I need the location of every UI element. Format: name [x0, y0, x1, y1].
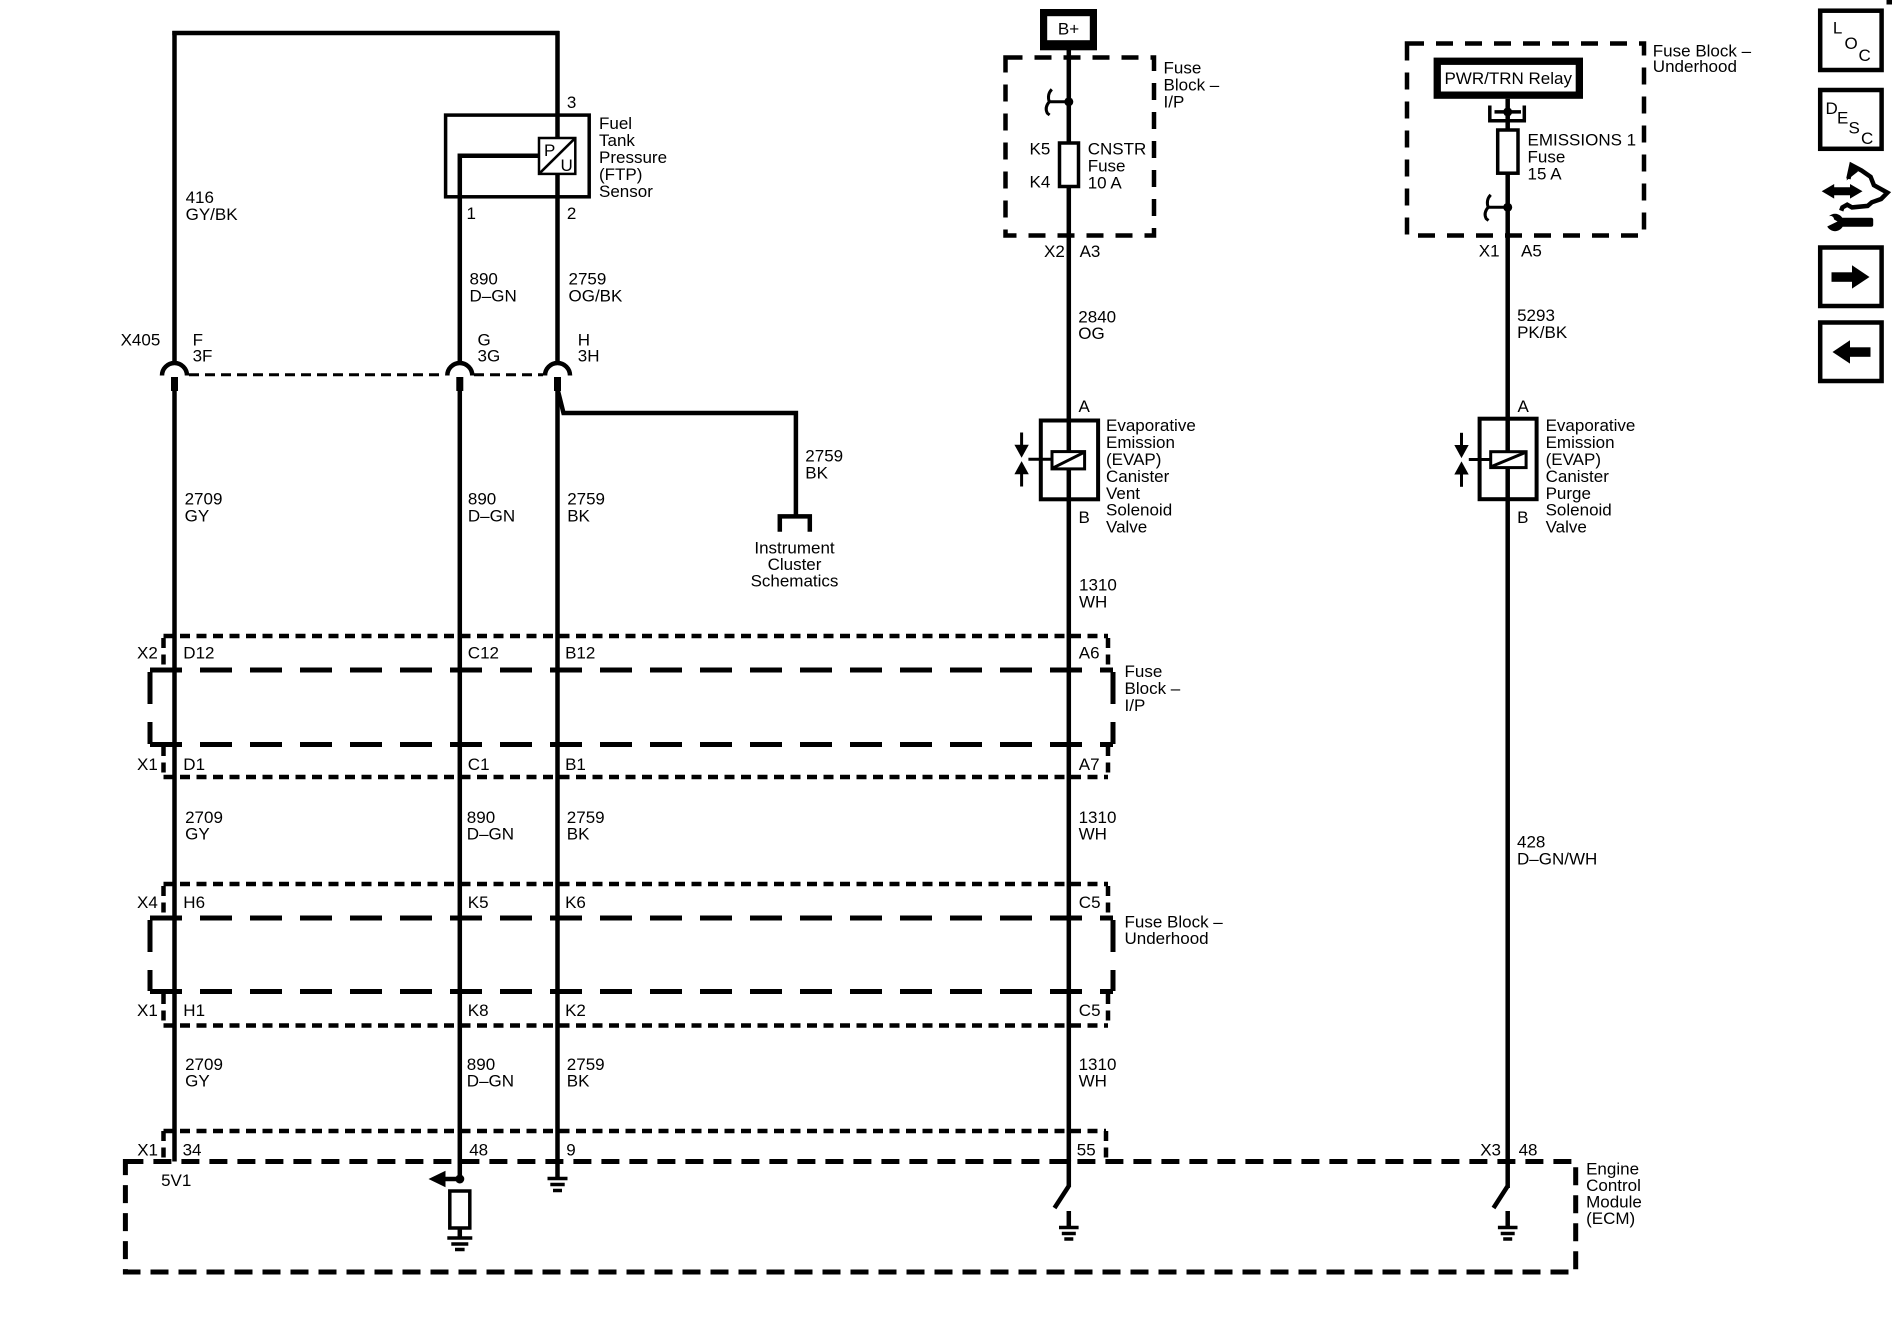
wire 2759 BK mid: [555, 390, 560, 1162]
ground (pin 48 X3): [1498, 1228, 1518, 1240]
svg-text:K5: K5: [468, 893, 489, 912]
svg-text:X4: X4: [137, 893, 158, 912]
resistor (FTP signal pull-up): [450, 1191, 470, 1228]
FTP sensor box: [446, 115, 590, 197]
svg-text:U: U: [561, 156, 573, 175]
svg-text:C5: C5: [1079, 1001, 1101, 1020]
off-page connector bracket: [780, 516, 810, 531]
svg-text:5V1: 5V1: [161, 1171, 191, 1190]
ground stub pin 55: [1067, 1211, 1072, 1226]
svg-text:C: C: [1861, 129, 1873, 148]
svg-text:9: 9: [566, 1141, 575, 1160]
svg-text:H1: H1: [183, 1001, 205, 1020]
wire 5293 PK/BK from relay: [1505, 99, 1510, 419]
svg-text:P: P: [544, 141, 555, 160]
connector arc G: [447, 363, 472, 376]
LOC icon: [1820, 11, 1881, 70]
wrench double-arrow icon: [1821, 164, 1887, 231]
svg-text:D1: D1: [183, 755, 205, 774]
svg-text:X3: X3: [1480, 1141, 1501, 1160]
fuse block underhood pass-through connector X4/X1 fine box: [164, 882, 1109, 887]
ground (pin 9): [548, 1179, 568, 1191]
wire resistor to ground: [458, 1228, 463, 1237]
stub H: [554, 377, 561, 391]
ground (below resistor): [447, 1238, 472, 1250]
ECM dashed box: [125, 1162, 1575, 1273]
P/U sensor symbol: [539, 138, 575, 175]
ground (pin 55): [1059, 1228, 1079, 1240]
driver switch pin 48 X3: [1494, 1186, 1508, 1208]
svg-text:S: S: [1849, 119, 1860, 138]
FTP internal wire pin1: [460, 156, 539, 197]
svg-text:L: L: [1833, 19, 1842, 38]
svg-text:B+: B+: [1058, 20, 1079, 39]
stub G: [456, 377, 463, 391]
fuse CNSTR 10A: [1060, 143, 1079, 187]
B+ power symbol: [1040, 9, 1097, 50]
svg-text:Fuse Block –Underhood: Fuse Block –Underhood: [1125, 913, 1224, 949]
svg-text:A: A: [1518, 397, 1530, 416]
wire pin 9 stub: [555, 1160, 560, 1177]
svg-text:B12: B12: [565, 644, 595, 663]
wire 2709 GY mid: [172, 390, 177, 1162]
fuse block underhood pass-through heavy box: [150, 916, 1113, 921]
bus tap hook K5: [1046, 89, 1073, 115]
svg-text:C12: C12: [468, 644, 499, 663]
5V reference arrow at pin 48: [429, 1171, 465, 1187]
fuse block underhood dashed box: [1407, 44, 1644, 236]
svg-text:2: 2: [567, 204, 576, 223]
svg-text:K6: K6: [565, 893, 586, 912]
svg-text:B1: B1: [565, 755, 586, 774]
bus tap hook A5: [1485, 195, 1512, 221]
svg-text:A7: A7: [1079, 755, 1100, 774]
fuse block I/P pass-through connector X2/X1 fine box: [164, 634, 1109, 639]
svg-text:EngineControlModule(ECM): EngineControlModule(ECM): [1586, 1160, 1642, 1229]
wire 1310 WH from vent valve: [1067, 499, 1072, 1162]
svg-text:48: 48: [469, 1141, 488, 1160]
DESC icon: [1820, 90, 1881, 149]
svg-text:A: A: [1079, 397, 1091, 416]
driver switch pin 55: [1055, 1186, 1069, 1208]
fuse block I/P dashed box: [1006, 58, 1155, 236]
svg-text:X2: X2: [1044, 242, 1065, 261]
svg-text:C1: C1: [468, 755, 490, 774]
EVAP canister vent solenoid valve: [1014, 421, 1098, 500]
svg-text:A3: A3: [1080, 242, 1101, 261]
svg-text:C5: C5: [1079, 893, 1101, 912]
svg-text:3: 3: [567, 93, 576, 112]
ECM connector fine line: [164, 1129, 1107, 1134]
svg-text:1: 1: [467, 204, 476, 223]
svg-text:K8: K8: [468, 1001, 489, 1020]
svg-text:X2: X2: [137, 644, 158, 663]
svg-text:B: B: [1517, 508, 1528, 527]
wire B+ to vent valve (2840 OG / 1310 WH upper): [1067, 50, 1072, 421]
connector arc F: [162, 363, 187, 376]
wire 416 GY/BK top horizontal: [172, 31, 559, 36]
svg-text:PWR/TRN Relay: PWR/TRN Relay: [1444, 69, 1572, 88]
wire 890 D-GN mid: [458, 390, 463, 1179]
svg-text:Fuse Block –Underhood: Fuse Block –Underhood: [1653, 41, 1752, 76]
wire 416 GY/BK vertical: [172, 31, 177, 364]
wire FTP pin3 vertical: [555, 31, 560, 116]
svg-text:H6: H6: [183, 893, 205, 912]
svg-text:48: 48: [1519, 1141, 1538, 1160]
EVAP canister purge solenoid valve: [1454, 419, 1536, 500]
wire 428 D-GN/WH: [1505, 499, 1510, 1188]
svg-text:X1: X1: [137, 1141, 158, 1160]
svg-text:B: B: [1079, 508, 1090, 527]
svg-text:E: E: [1837, 109, 1848, 128]
svg-text:D12: D12: [183, 644, 214, 663]
wire 890 D-GN pin1 down: [458, 196, 463, 364]
svg-text:X405: X405: [121, 331, 161, 350]
corner mark: [1887, 0, 1892, 5]
svg-text:C: C: [1859, 46, 1871, 65]
ground stub pin 48 X3: [1505, 1211, 1510, 1226]
fuse EMISSIONS 1 15A: [1498, 130, 1518, 173]
svg-text:X1: X1: [137, 755, 158, 774]
svg-text:K4: K4: [1030, 173, 1051, 192]
svg-text:55: 55: [1077, 1141, 1096, 1160]
svg-text:X1: X1: [137, 1001, 158, 1020]
branch wire 2759 BK to instrument cluster: [558, 389, 796, 515]
svg-text:K2: K2: [565, 1001, 586, 1020]
svg-text:D: D: [1826, 99, 1838, 118]
svg-text:A5: A5: [1521, 242, 1542, 261]
relay output terminal bracket: [1490, 106, 1525, 121]
back arrow icon: [1820, 323, 1881, 382]
ECM connector fine ticks: [161, 1131, 166, 1160]
stub F: [171, 377, 178, 391]
svg-text:O: O: [1845, 34, 1858, 53]
wire 2759 OG/BK pin2 down: [555, 174, 560, 365]
wire pin 55 stub: [1067, 1160, 1072, 1187]
X405 dashed harness line: [189, 373, 445, 376]
svg-text:X1: X1: [1479, 242, 1500, 261]
svg-text:K5: K5: [1030, 140, 1051, 159]
connector arc H: [545, 363, 570, 376]
fuse block I/P pass-through heavy box: [150, 668, 1113, 673]
svg-text:34: 34: [183, 1141, 202, 1160]
forward arrow icon: [1820, 248, 1881, 307]
PWR/TRN Relay box: [1434, 58, 1583, 99]
svg-text:A6: A6: [1079, 644, 1100, 663]
wire pin3 inside box to P/U: [555, 115, 560, 138]
